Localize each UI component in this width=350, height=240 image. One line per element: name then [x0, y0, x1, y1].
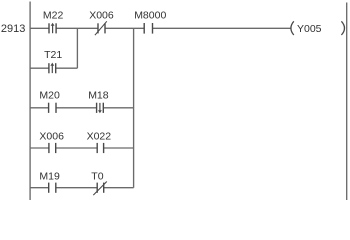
contact M18 arrowhead down — [98, 110, 102, 113]
wire row2 T21 to junction — [56, 67, 78, 69]
wire rung1 rail to M22 — [30, 27, 49, 29]
left power rail — [29, 2, 31, 201]
svg-text:Y005: Y005 — [297, 23, 322, 35]
contact M22 arrow up — [52, 25, 54, 34]
wire row5 T0 to junction — [104, 187, 134, 189]
svg-text:M18: M18 — [88, 90, 109, 102]
wire rung1 M8000 to coil — [153, 27, 292, 29]
contact M19 NO bars — [48, 183, 50, 193]
wire rung1 M22 to X006 — [56, 27, 98, 29]
contact M22 rising-edge bars — [48, 23, 50, 33]
svg-text:M8000: M8000 — [134, 10, 166, 22]
wire row3 M20 to M18 — [56, 107, 97, 109]
contact M18 arrow down — [99, 103, 101, 112]
svg-text:M19: M19 — [39, 170, 60, 182]
right power rail — [346, 3, 348, 201]
coil Y005 right paren — [341, 21, 344, 35]
wire row5 rail to M19 — [30, 187, 49, 189]
contact M8000 NO bars — [143, 23, 145, 34]
wire rung1 X006 to M8000 — [105, 27, 144, 29]
contact X006 NC slash — [95, 21, 107, 35]
contact M20 NO bars — [48, 103, 50, 113]
contact M18 falling-edge bars — [96, 103, 98, 113]
wire branch vertical T21 join — [76, 28, 78, 68]
wire row2 rail to T21 — [30, 67, 49, 69]
wire row3 M18 to junction — [103, 107, 133, 109]
coil Y005 left paren — [291, 21, 294, 35]
contact T21 arrow up — [51, 64, 53, 73]
contact T21 rising-edge bars — [48, 63, 50, 73]
contact T0 NC slash — [93, 182, 107, 196]
svg-text:X006: X006 — [89, 10, 114, 22]
svg-text:T21: T21 — [44, 49, 62, 61]
contact T0 NC bars — [96, 183, 98, 193]
wire row5 M19 to T0 — [56, 187, 97, 189]
svg-text:T0: T0 — [91, 170, 103, 182]
contact T21 arrowhead up — [50, 63, 54, 66]
contact X006 row4 NO bars — [48, 143, 50, 153]
contact X006 NC bars — [97, 23, 99, 33]
wire row4 X006 to X022 — [56, 147, 97, 149]
contact X022 NO bars — [96, 143, 98, 153]
svg-text:2913: 2913 — [1, 23, 25, 35]
svg-text:M22: M22 — [43, 10, 64, 22]
wire branch vertical main join — [133, 28, 135, 187]
wire row4 rail to X006 — [30, 147, 49, 149]
wire row3 rail to M20 — [30, 107, 48, 109]
svg-text:X022: X022 — [87, 130, 112, 142]
svg-text:M20: M20 — [39, 90, 60, 102]
wire row4 X022 to junction — [104, 147, 134, 149]
svg-text:X006: X006 — [39, 130, 64, 142]
contact M22 arrowhead up — [51, 23, 55, 26]
